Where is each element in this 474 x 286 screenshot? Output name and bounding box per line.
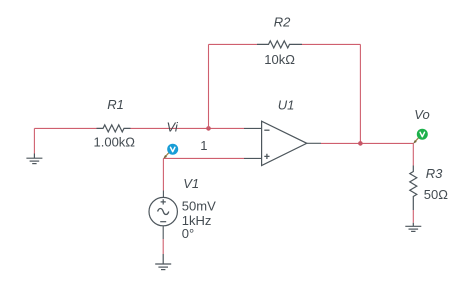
svg-text:R3: R3 — [426, 166, 443, 181]
wire: R3 to ground — [412, 210, 414, 223]
probe Vo (green) — [413, 129, 428, 144]
probe Vi (blue) — [163, 144, 178, 159]
wire: non-inverting input horizontal — [163, 157, 244, 159]
pin top — [162, 191, 164, 198]
wire: R1 to node Vi junction — [131, 127, 209, 129]
wire: left ground riser — [33, 128, 35, 153]
minus mark — [160, 221, 166, 223]
svg-text:V1: V1 — [183, 176, 199, 191]
plus mark — [161, 199, 166, 204]
wire: V1 to ground — [162, 239, 164, 254]
resistor R1 — [97, 125, 131, 132]
sine mark — [158, 209, 169, 215]
pin - (inverting input) — [244, 127, 262, 129]
wire: feedback left vertical — [208, 44, 210, 128]
ground GND3 (right) — [405, 223, 421, 232]
svg-text:Vo: Vo — [414, 107, 429, 122]
wire: top feedback right segment — [302, 43, 360, 45]
op-amp U1 — [244, 121, 321, 165]
svg-text:50Ω: 50Ω — [424, 187, 448, 202]
wire: input segment from ground to R1 — [34, 127, 96, 129]
wire: output corner down to R3 — [412, 143, 414, 165]
plus symbol — [264, 154, 269, 159]
svg-text:U1: U1 — [278, 98, 295, 113]
wire: V1 riser — [162, 158, 164, 190]
svg-text:50mV: 50mV — [182, 199, 216, 214]
resistor R3 — [410, 166, 417, 211]
ground GND2 (bottom) — [155, 254, 171, 270]
pin + (non-inverting input) — [244, 157, 262, 159]
svg-text:1.00kΩ: 1.00kΩ — [94, 134, 136, 149]
svg-text:10kΩ: 10kΩ — [264, 52, 295, 67]
wire: junction to op-amp inverting pin — [209, 127, 245, 129]
wire: feedback right vertical — [359, 44, 361, 143]
wire: op-amp output to right corner — [321, 142, 413, 144]
svg-text:R2: R2 — [274, 14, 291, 29]
svg-text:Vi: Vi — [167, 120, 179, 135]
svg-text:0°: 0° — [182, 226, 194, 241]
resistor R2 — [257, 41, 302, 48]
source V1 — [149, 191, 177, 240]
pin bottom — [162, 226, 164, 239]
svg-text:R1: R1 — [107, 97, 124, 112]
wire: top feedback left segment — [209, 43, 258, 45]
minus symbol — [264, 129, 269, 131]
junction node Vi — [206, 126, 211, 131]
svg-text:1: 1 — [200, 138, 207, 153]
pin output — [307, 142, 321, 144]
ground GND1 (left) — [26, 154, 42, 164]
junction node Vo — [358, 141, 363, 146]
